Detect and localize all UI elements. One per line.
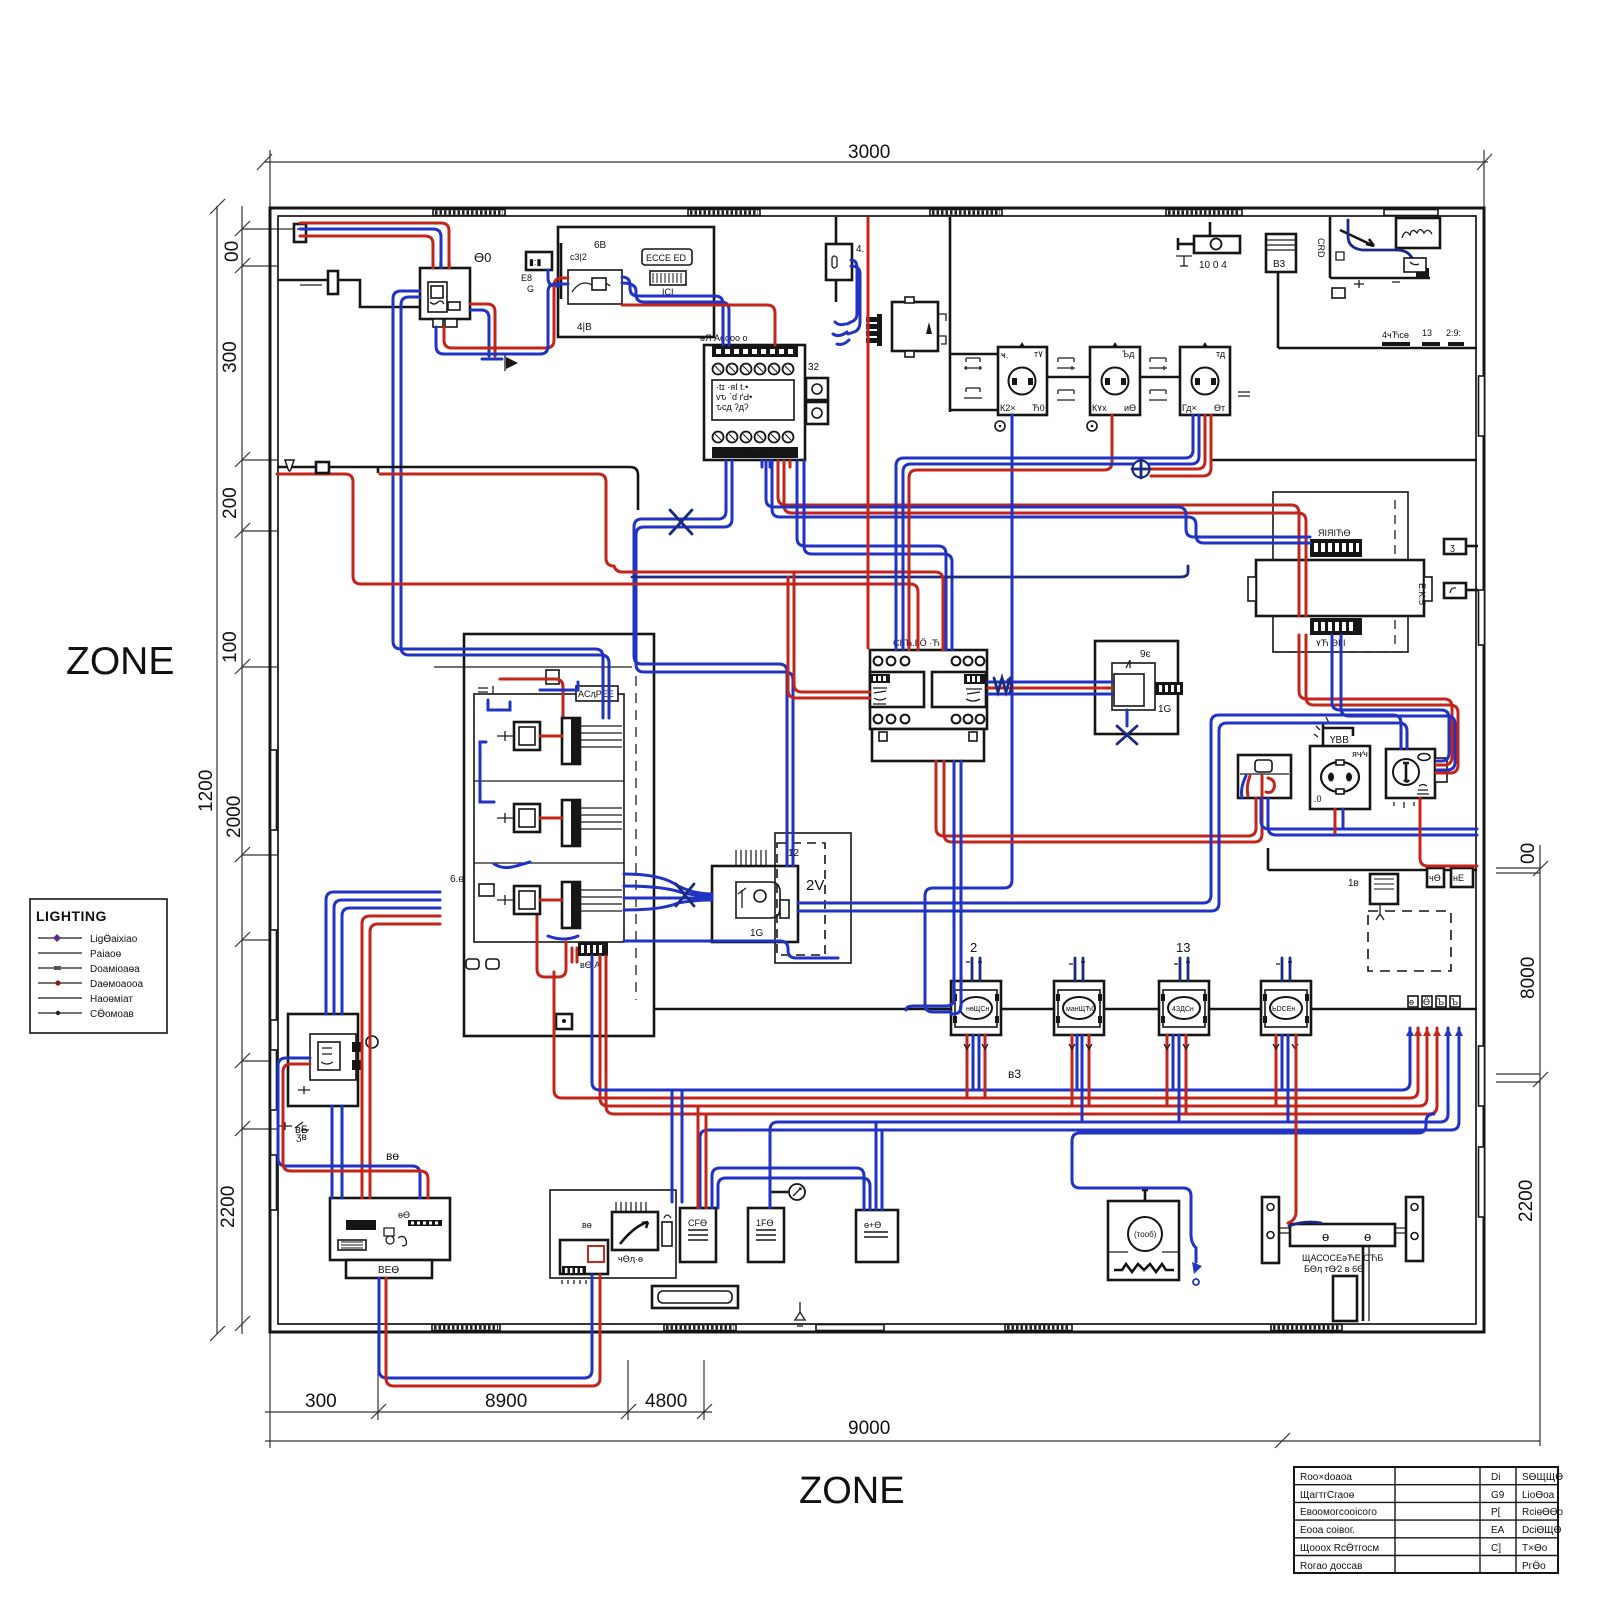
svg-text:▮:▮: ▮:▮ xyxy=(529,257,541,267)
svg-text:ө: ө xyxy=(1322,1229,1329,1244)
wire blue pair P1 to TB1 xyxy=(622,277,723,345)
wire motor M3 leads down xyxy=(1164,1035,1189,1122)
svg-text:1FӨ: 1FӨ xyxy=(756,1218,774,1228)
svg-text:чӨӆ·ө: чӨӆ·ө xyxy=(618,1254,643,1264)
wall outer rectangle xyxy=(270,208,1484,1332)
svg-text:тд: тд xyxy=(1216,349,1226,359)
relay box RB1 bottom right wall xyxy=(1268,848,1477,920)
dashed zone box right of MS0 xyxy=(775,833,851,963)
svg-text:4чЋcө: 4чЋcө xyxy=(1382,330,1409,340)
svg-text:нөЩСн: нөЩСн xyxy=(966,1006,989,1013)
display D1 left of P1 xyxy=(521,252,559,294)
svg-text:2000: 2000 xyxy=(224,796,245,838)
svg-text:00: 00 xyxy=(1518,843,1539,864)
svg-text:·tɪ ·яІ t.•: ·tɪ ·яІ t.• xyxy=(716,382,748,392)
svg-text:иӨ: иӨ xyxy=(1124,403,1136,413)
svg-text:(тооб): (тооб) xyxy=(1134,1230,1157,1239)
svg-text:4800: 4800 xyxy=(645,1391,687,1412)
svg-text:9000: 9000 xyxy=(848,1418,890,1439)
wall window hatches right xyxy=(1479,376,1485,1217)
wire pair SW1 to wall and down to CC1 xyxy=(278,1058,420,1198)
svg-text:EA: EA xyxy=(1491,1525,1505,1536)
svg-text:ZONE: ZONE xyxy=(66,640,174,683)
svg-text:1G: 1G xyxy=(1158,704,1172,715)
svg-text:8900: 8900 xyxy=(485,1391,527,1412)
svg-text:Ћ0: Ћ0 xyxy=(1032,403,1045,413)
terminal clips between sockets xyxy=(964,358,1250,400)
svg-text:СFӨ: СFӨ xyxy=(688,1218,707,1228)
power socket SK1 xyxy=(995,342,1047,431)
wire socket SK3 red to junction xyxy=(1149,415,1205,469)
motor control box MC1 xyxy=(1095,641,1183,744)
relay module RM1 xyxy=(497,718,622,764)
wire red trunk lower from wall xyxy=(277,474,918,650)
wall sensor tag 2G xyxy=(278,1122,309,1143)
wire red drop to contactor left xyxy=(794,574,870,692)
wire blue loop around fan motor FM1 xyxy=(1072,1114,1434,1248)
svg-text:EB 0 EC1жcӥб.ʌ: EB 0 EC1жcӥб.ʌ xyxy=(716,449,776,458)
svg-text:К2×: К2× xyxy=(1000,403,1016,413)
svg-text:13: 13 xyxy=(1176,940,1190,955)
svg-text:C]: C] xyxy=(1491,1543,1501,1554)
svg-text:Щооох RсӪтгосм: Щооох RсӪтгосм xyxy=(1300,1542,1379,1554)
cable tray bottom center xyxy=(652,1286,805,1326)
svg-text:2V: 2V xyxy=(806,877,824,894)
svg-text:Гд×: Гд× xyxy=(1182,403,1197,413)
wall connector W2 right of transformer xyxy=(1444,583,1478,598)
dimension line left outer 1200 xyxy=(196,199,225,1341)
svg-text:100: 100 xyxy=(220,631,241,663)
contactor pair K1 xyxy=(870,638,987,761)
wire blue fan drop with arrow xyxy=(1192,1248,1202,1285)
black wire from left wall to S1 xyxy=(277,280,420,307)
wire pair S1 to ground point xyxy=(470,304,495,356)
motor starter MS0 (right of panel) xyxy=(712,848,800,942)
svg-text:Eвоомогсооісого: Eвоомогсооісого xyxy=(1300,1507,1377,1518)
svg-text:E8: E8 xyxy=(521,273,532,283)
svg-text:SӨЩЩӨ: SӨЩЩӨ xyxy=(1522,1472,1563,1483)
motor starter M4 xyxy=(1261,958,1311,1035)
wire socket SK1 blue drop to motor M1 xyxy=(925,415,1012,1012)
wire blue triple panel left to SW1 xyxy=(326,892,440,1014)
wire blue bottom bundle from panel xyxy=(592,956,1410,1090)
wire blue pair MS0 right up over to timer outlet SB2 xyxy=(798,715,1401,903)
svg-text:300: 300 xyxy=(305,1391,337,1412)
feeder box FB3 xyxy=(856,1210,898,1262)
bundle arrows up xyxy=(1406,1028,1463,1036)
relay module RM2 xyxy=(497,800,622,846)
wire red feed lower J1 to S1 xyxy=(300,236,433,268)
ground symbol xyxy=(482,355,518,371)
wire blue bundle via feeder boxes xyxy=(770,1028,1448,1208)
svg-text:вө: вө xyxy=(386,1149,399,1163)
wire blue pair contactor bottom down left xyxy=(906,761,954,1010)
svg-text:ЩагтгСгаоө: ЩагтгСгаоө xyxy=(1300,1490,1355,1501)
svg-text:G: G xyxy=(527,284,534,294)
disconnect switch Q1 top right xyxy=(1176,236,1240,271)
wire red P1 to TB1 xyxy=(622,305,775,345)
svg-text:CӪомоав: CӪомоав xyxy=(90,1008,134,1020)
partition rail motor row xyxy=(655,1008,1477,1011)
wire red feed J1 to S1 xyxy=(300,223,449,268)
panel internal blue jumpers xyxy=(480,682,578,939)
terminal block TB1 xyxy=(700,333,828,467)
wire blue pair TB1 via crossover X to MS0 xyxy=(634,461,787,866)
svg-text:Ъд: Ъд xyxy=(1122,349,1135,359)
socket outlet box SB1 xyxy=(1310,717,1370,809)
control cabinet CC1 bottom left xyxy=(330,1198,450,1278)
svg-text:ʒ: ʒ xyxy=(1450,542,1455,552)
svg-text:2200: 2200 xyxy=(1516,1180,1537,1222)
svg-text:Dоаміоаөа: Dоаміоаөа xyxy=(90,964,140,975)
svg-text:Pаіаоө: Pаіаоө xyxy=(90,949,122,960)
svg-text:Ъ: Ъ xyxy=(1437,997,1444,1007)
svg-text:BЕӨ: BЕӨ xyxy=(378,1265,399,1276)
wire blue pair from F1 to G1 pins xyxy=(847,260,860,334)
svg-text:13: 13 xyxy=(1422,328,1432,338)
feeder box FB1 xyxy=(680,1208,716,1262)
svg-text:өӨ: өӨ xyxy=(398,1210,410,1220)
wall window hatches top xyxy=(433,210,1438,216)
svg-text:вБ: вБ xyxy=(295,1124,308,1136)
wire red pair TR1 bottom to SB2 xyxy=(1299,635,1452,765)
inline device on black wire xyxy=(328,271,338,294)
svg-text:6B: 6B xyxy=(594,240,607,251)
svg-text:1G: 1G xyxy=(750,928,764,939)
wall switch SW1 left xyxy=(288,1014,378,1106)
panel bottom connector xyxy=(578,942,608,970)
svg-text:LіgӪаіхіао: LіgӪаіхіао xyxy=(90,933,138,945)
svg-text:LIGHTING: LIGHTING xyxy=(36,908,107,924)
wire red trunk upper (tap from black wire) xyxy=(378,467,943,650)
svg-text:Ъ: Ъ xyxy=(1451,997,1458,1007)
tiny labels and pads right of sockets xyxy=(1382,328,1464,346)
dimension line top 3000 xyxy=(257,142,1492,208)
partition wall top middle xyxy=(835,217,838,302)
svg-text:ө: ө xyxy=(1409,997,1414,1007)
wire blue feed J1 to S1 xyxy=(300,229,441,268)
relay module RM3 xyxy=(497,882,622,928)
power socket SK3 xyxy=(1180,342,1230,415)
svg-text:вө: вө xyxy=(582,1220,592,1230)
indicator lamp IL1 xyxy=(770,1184,805,1200)
wire motor M2 leads down xyxy=(1069,1035,1092,1122)
svg-text:PгӪо: PгӪо xyxy=(1522,1560,1546,1572)
wire blue pair TB1 to coil top xyxy=(766,461,1310,537)
svg-text:Өт: Өт xyxy=(1214,403,1225,413)
dimension line bottom segments 300 8900 4800 xyxy=(265,1332,712,1420)
svg-text:Dаөмоаооа: Dаөмоаооа xyxy=(90,979,143,990)
motor starter M1 xyxy=(951,940,1001,1035)
dashed reserve zone bottom right xyxy=(1368,911,1451,971)
svg-text:Rогао доссав: Rогао доссав xyxy=(1300,1561,1362,1572)
transformer TR1 xyxy=(1248,492,1432,652)
svg-text:9є: 9є xyxy=(1140,649,1151,660)
wall window hatches left xyxy=(271,750,277,1210)
motor starter M2 xyxy=(1054,958,1104,1035)
svg-text:10 0 4: 10 0 4 xyxy=(1199,260,1227,271)
wire black room feed with flag xyxy=(277,460,638,510)
distribution pads right of motor row xyxy=(1408,996,1460,1007)
svg-text:P[: P[ xyxy=(1491,1507,1501,1518)
wire pair lamp outlet LB1 down to right wall xyxy=(1261,798,1477,829)
svg-text:8000: 8000 xyxy=(1518,957,1539,999)
wire red pair panel left down to cabinet CC1 xyxy=(362,916,440,1198)
svg-text:1в: 1в xyxy=(1348,878,1359,889)
wire socket SK2 red to contactor top xyxy=(909,415,1112,650)
wire blue pair TB1 right terminals to contactor top xyxy=(797,461,946,650)
wire red SB2 to right wall xyxy=(1420,798,1477,866)
svg-text:СІ Ћ.І Ӧ ·Ћ: СІ Ћ.І Ӧ ·Ћ xyxy=(893,638,940,648)
svg-text:4.: 4. xyxy=(856,244,864,255)
svg-text:ECCE ED: ECCE ED xyxy=(646,253,687,263)
svg-text:300: 300 xyxy=(220,341,241,373)
svg-text:К٧х: К٧х xyxy=(1092,403,1107,413)
svg-text:B3: B3 xyxy=(1273,259,1286,270)
wire red pair TB1 to transformer TR1 xyxy=(778,461,1299,540)
svg-text:3000: 3000 xyxy=(848,142,890,163)
svg-text:2: 2 xyxy=(970,940,977,955)
wire blue squiggles into G1 xyxy=(833,322,849,345)
svg-text:ҮВB: ҮВB xyxy=(1330,735,1349,746)
wire drops from bundle into pump unit and feeders xyxy=(672,1090,682,1202)
dimension line right segments xyxy=(1496,843,1548,1446)
title block table xyxy=(1294,1467,1564,1573)
svg-text:манЩЋС: манЩЋС xyxy=(1066,1006,1096,1013)
svg-text:ԏcд ʔдʔ: ԏcд ʔдʔ xyxy=(716,402,749,412)
junction box on panel bottom edge xyxy=(556,1014,572,1029)
wire contactor K1 to MC1 link xyxy=(988,678,1112,694)
svg-text:ЩАСОСЕәЋЕ СЋБ: ЩАСОСЕәЋЕ СЋБ xyxy=(1302,1253,1383,1263)
switch unit S1 top-left xyxy=(420,262,470,327)
power socket SK2 xyxy=(1087,342,1140,431)
svg-text:T×Өо: T×Өо xyxy=(1522,1543,1548,1554)
svg-text:6.ө: 6.ө xyxy=(450,874,464,885)
svg-text:CRD: CRD xyxy=(1316,238,1326,258)
svg-text:ЯІЯІЋӨ: ЯІЯІЋӨ xyxy=(1318,528,1351,538)
feeder box FB2 xyxy=(748,1208,784,1262)
svg-text:4|B: 4|B xyxy=(577,322,592,333)
crossover mark X1 xyxy=(670,510,692,534)
svg-text:ЬDСЕн: ЬDСЕн xyxy=(1272,1006,1295,1013)
svg-text:яч⁄ч: яч⁄ч xyxy=(1352,749,1368,759)
dimension line bottom overall 9000 xyxy=(265,1332,1540,1448)
svg-text:G9: G9 xyxy=(1491,1490,1505,1501)
wire stubs outlet SB1 bottom xyxy=(1334,809,1337,833)
control panel P1 top xyxy=(558,227,714,337)
svg-text:Ө0: Ө0 xyxy=(474,250,491,265)
wire socket SK3 blues to contactor top xyxy=(896,415,1193,650)
multipin connector G1 xyxy=(866,297,946,357)
wall device F1 top middle xyxy=(826,244,864,280)
wire blue pair loop to feeder FB3 xyxy=(712,1168,864,1210)
svg-text:2:9:: 2:9: xyxy=(1446,328,1461,338)
wire red drop to bracket BB1 xyxy=(1288,1035,1321,1226)
distribution panel DP1 (middle) xyxy=(434,634,654,1036)
wire long red vertical from top wall xyxy=(867,218,870,648)
wire motor M4 leads down xyxy=(1273,1035,1298,1122)
wire blue pair S1 down to panel DP1 xyxy=(393,291,603,718)
partition wall sockets column xyxy=(950,217,1180,412)
svg-text:ө: ө xyxy=(1364,1229,1371,1244)
svg-text:4ЗДСн: 4ЗДСн xyxy=(1172,1006,1194,1013)
svg-text:в3: в3 xyxy=(1008,1067,1021,1081)
svg-text:нЕ: нЕ xyxy=(1453,873,1464,883)
wire red pair contactor bottom to lamp box LB1 xyxy=(936,761,1256,836)
bus bracket assembly BB1 bottom right xyxy=(1262,1197,1423,1321)
wire blue panel to MS0 lower link xyxy=(624,941,838,958)
svg-text:Ӫ: Ӫ xyxy=(1423,997,1430,1007)
meter box B3 xyxy=(1266,234,1326,272)
fan motor FM1 bottom xyxy=(1108,1190,1179,1280)
motor starter M3 xyxy=(1159,940,1209,1035)
wire blue fan panel to MS0 xyxy=(624,874,712,910)
svg-text:Наоөміат: Наоөміат xyxy=(90,994,133,1005)
legend box LIGHTING xyxy=(30,899,167,1033)
svg-text:vԏ ΄ɗ ґԀ•: vԏ ΄ɗ ґԀ• xyxy=(716,392,752,402)
svg-text:чӨ: чӨ xyxy=(1429,873,1441,883)
svg-text:Rоо×dоаоа: Rоо×dоаоа xyxy=(1300,1472,1352,1483)
lamp outlet box LB1 xyxy=(1238,755,1291,798)
svg-text:ZONE: ZONE xyxy=(799,1470,905,1512)
svg-text:Dі: Dі xyxy=(1491,1472,1500,1483)
svg-text:RсіөӨӨо: RсіөӨӨо xyxy=(1522,1507,1564,1518)
junction symbol circled cross xyxy=(1132,460,1150,478)
svg-text:Eооа соівог.: Eооа соівог. xyxy=(1300,1525,1355,1536)
svg-text:c3|2: c3|2 xyxy=(570,252,587,262)
junction box J1 on top-left wall xyxy=(294,224,306,242)
wire blue pair TR1 bottom coil to SB2 connector xyxy=(1332,635,1449,761)
wire pair S1 bottom to P1 xyxy=(444,278,568,348)
wire blue pair SW1 down to cabinet CC1 xyxy=(332,1106,342,1198)
svg-text:32: 32 xyxy=(808,362,820,373)
partition line top right xyxy=(1210,222,1477,460)
svg-text:LіоӨоа: LіоӨоа xyxy=(1522,1490,1555,1501)
svg-text:ө+Ө: ө+Ө xyxy=(864,1220,881,1230)
svg-text:DсіӨЩӨ: DсіӨЩӨ xyxy=(1522,1525,1562,1536)
wire pair CC1 bottom loop to pump unit PU1 xyxy=(379,1275,592,1378)
svg-text:БӨӆ тӨ⁄2 в 6Ө: БӨӆ тӨ⁄2 в 6Ө xyxy=(1304,1264,1364,1274)
wire motor M1 leads down xyxy=(964,1035,988,1098)
svg-text:ҹ.: ҹ. xyxy=(1001,350,1008,360)
wire red pair bottom bundle from panel xyxy=(554,972,1418,1098)
wall window hatches bottom xyxy=(432,1325,1342,1331)
svg-text:вӨӀА: вӨӀА xyxy=(580,960,600,970)
crossover mark X2 xyxy=(676,884,694,906)
svg-text:т٧: т٧ xyxy=(1034,349,1043,359)
wire blue drops to FB3 from bundle xyxy=(876,1122,882,1210)
alarm sub-circuit top right xyxy=(1330,217,1440,298)
timer outlet box SB2 xyxy=(1386,749,1447,808)
dimension line left inner segments xyxy=(218,206,300,1334)
svg-text:E.K.5: E.K.5 xyxy=(1417,583,1427,605)
svg-text:200: 200 xyxy=(220,487,241,519)
wire navy trunk across middle xyxy=(632,566,1188,577)
svg-text:2200: 2200 xyxy=(218,1186,239,1228)
svg-text:.0: .0 xyxy=(1314,794,1322,804)
pump unit assembly PU1 bottom center xyxy=(550,1190,676,1284)
svg-text:1200: 1200 xyxy=(196,770,217,812)
wire red pair through transformer core xyxy=(1299,540,1306,616)
svg-text:00: 00 xyxy=(222,241,243,262)
wall connector W1 right of transformer xyxy=(1444,539,1478,554)
